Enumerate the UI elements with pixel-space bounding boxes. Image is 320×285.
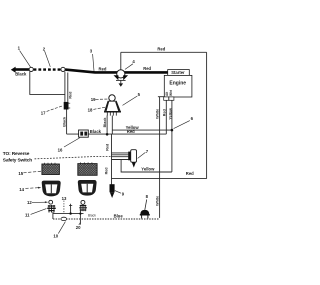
- starter box: [168, 70, 190, 76]
- junction dot key switch bus: [106, 133, 109, 136]
- wire fuse to black bus vertical: [66, 109, 68, 134]
- svg-text:15: 15: [18, 171, 23, 176]
- wire black bus horizontal: [67, 133, 167, 135]
- svg-text:Black: Black: [103, 117, 107, 128]
- wire ammeter to top corner vertical: [120, 52, 122, 69]
- interlock boot B: [78, 180, 97, 196]
- svg-text:Wht: Wht: [169, 89, 173, 96]
- svg-text:10: 10: [53, 233, 58, 238]
- wire bundle to solenoid 7: [112, 153, 129, 160]
- leader 10: [58, 222, 65, 234]
- wire yellow engine vertical: [171, 100, 173, 172]
- inline fuse 9 body: [110, 184, 115, 192]
- leader 7: [138, 152, 146, 158]
- leader 20: [79, 222, 81, 225]
- svg-text:White: White: [156, 109, 160, 119]
- svg-text:18: 18: [88, 107, 93, 112]
- svg-text:Engine: Engine: [169, 81, 186, 87]
- svg-text:16: 16: [58, 147, 63, 152]
- junction dot plus stub: [69, 212, 71, 214]
- wire bottom red horizontal to solenoid: [112, 178, 207, 180]
- wire key switch left black drop: [106, 116, 108, 135]
- svg-text:17: 17: [41, 110, 46, 115]
- battery cable thick segment left: [15, 68, 30, 71]
- svg-text:Starter: Starter: [171, 70, 185, 75]
- leader 14: [25, 187, 38, 190]
- svg-text:Yellow: Yellow: [141, 166, 155, 171]
- leader to label 9: [115, 191, 121, 194]
- indicator bulb 12: [49, 200, 53, 204]
- leader 5: [123, 96, 138, 105]
- svg-text:19: 19: [91, 97, 96, 102]
- svg-text:TO: Reverse: TO: Reverse: [3, 151, 30, 157]
- svg-text:Red: Red: [68, 91, 72, 99]
- svg-text:Red: Red: [186, 171, 194, 176]
- leader 11: [31, 209, 47, 215]
- solenoid 7 tip: [132, 162, 136, 167]
- wire yellow pto jog: [121, 160, 172, 173]
- leader 16: [64, 138, 80, 147]
- junction dot yellow engine: [171, 129, 174, 132]
- svg-text:Red: Red: [105, 143, 109, 151]
- key switch body: [105, 101, 121, 111]
- wire dashed to reverse safety switch: [35, 156, 112, 159]
- battery cable thick segment right to starter: [65, 70, 168, 73]
- oval connector 10: [61, 217, 67, 220]
- solenoid 7 capsule: [131, 150, 137, 163]
- interlock boot A: [42, 181, 61, 197]
- wire white engine stub: [158, 96, 164, 98]
- engine connector tab right: [169, 97, 174, 100]
- wire top red supply horizontal: [121, 51, 207, 53]
- leader 19: [96, 98, 108, 100]
- ammeter ground arrow: [120, 80, 122, 83]
- svg-text:11: 11: [25, 213, 30, 218]
- leader 15: [23, 171, 41, 173]
- battery cable arrow terminal: [11, 67, 16, 73]
- key switch base line: [104, 111, 121, 113]
- buzzer 8 dome: [140, 210, 149, 215]
- svg-text:Black: Black: [90, 129, 102, 134]
- fuse 17 side ticks: [69, 103, 71, 108]
- key switch 5 knob: [109, 95, 115, 101]
- svg-text:13: 13: [62, 196, 67, 201]
- svg-text:Blue: Blue: [114, 213, 124, 218]
- svg-text:Red: Red: [99, 67, 107, 72]
- switch 11 body: [47, 206, 56, 211]
- dashed link 13: [63, 201, 65, 214]
- svg-text:Safety Switch: Safety Switch: [3, 158, 32, 164]
- wire white engine vertical: [159, 97, 161, 218]
- wire fuse feed pair vertical: [65, 72, 68, 102]
- svg-text:Yellow: Yellow: [126, 125, 140, 130]
- engine connector tab left: [164, 97, 169, 100]
- interlock module B body: [78, 164, 97, 176]
- wire blue bottom horizontal: [53, 218, 160, 220]
- ammeter left wedge: [114, 75, 119, 80]
- inline fuse 9 tip: [110, 192, 115, 198]
- buzzer 8 stem: [145, 200, 147, 210]
- key switch body shading: [106, 102, 119, 111]
- leader 17: [47, 106, 63, 112]
- fuel shutoff 10 body: [79, 206, 87, 210]
- svg-text:12: 12: [27, 200, 32, 205]
- svg-text:Red: Red: [162, 108, 166, 116]
- svg-text:Red: Red: [143, 66, 151, 71]
- battery dashed cable segment: [34, 68, 61, 70]
- leader 12: [32, 201, 48, 203]
- leader 6: [174, 121, 190, 129]
- leader 18: [93, 107, 105, 109]
- svg-text:Black: Black: [88, 214, 96, 218]
- wire right border red vertical: [206, 52, 208, 178]
- wire key switch right drop: [111, 116, 113, 135]
- leader 1: [20, 51, 31, 68]
- solenoid 7 connector bar: [128, 152, 131, 161]
- wire switch 11 leg drop: [52, 212, 54, 219]
- svg-text:Black: Black: [15, 72, 27, 77]
- wire plus stub vertical: [70, 207, 72, 214]
- wire red engine drop vertical: [165, 100, 167, 134]
- buzzer 8 base bar: [140, 214, 150, 216]
- battery terminal circle B: [61, 67, 65, 71]
- leader 4: [125, 64, 133, 70]
- leader 3: [93, 54, 94, 71]
- leader 2: [45, 51, 51, 67]
- svg-text:Black: Black: [63, 116, 67, 127]
- wire component 10 drop: [79, 211, 81, 225]
- connector 16 body: [79, 130, 89, 137]
- wire red center vertical to fuse 9: [111, 134, 113, 184]
- battery terminal circle A: [29, 67, 33, 71]
- fuel shutoff 10 top circle: [81, 200, 85, 204]
- svg-text:Red: Red: [157, 47, 165, 52]
- svg-text:20: 20: [76, 225, 81, 230]
- engine box: [164, 75, 192, 97]
- interlock module A body: [42, 164, 60, 175]
- svg-text:White: White: [155, 196, 159, 206]
- buzzer 8 legs: [142, 215, 148, 219]
- plus mark: [69, 204, 72, 207]
- fuse 17 body: [64, 102, 69, 110]
- ammeter ground bar: [116, 79, 126, 81]
- svg-text:14: 14: [19, 187, 24, 192]
- svg-text:Yellow: Yellow: [168, 108, 172, 120]
- wire upper bottom-left horizontal: [53, 213, 84, 215]
- ammeter right wedge: [123, 75, 128, 80]
- wire battery negative loop: [30, 72, 65, 95]
- junction dot component 10: [79, 213, 81, 215]
- svg-text:Red: Red: [105, 167, 109, 175]
- key switch terminals: [107, 112, 116, 115]
- ammeter circle 4: [117, 70, 125, 78]
- wire yellow key to engine horizontal: [112, 129, 172, 131]
